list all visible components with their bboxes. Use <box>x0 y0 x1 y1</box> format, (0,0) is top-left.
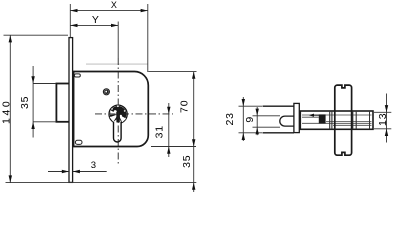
dim 31 line <box>168 103 170 157</box>
faceplate <box>69 38 73 183</box>
centerline horizontal <box>95 113 173 115</box>
dim 70/35 extension top <box>148 71 196 73</box>
dim 9 arrow bottom <box>256 127 259 134</box>
dim 3 line left <box>48 171 69 173</box>
dim 140 arrow top <box>9 35 12 42</box>
dim 23 line <box>242 97 244 141</box>
dim X arrow left <box>70 9 77 12</box>
dim 13 arrow bottom <box>385 129 388 136</box>
svg-text:140: 140 <box>1 99 13 124</box>
dim 23 arrow bottom <box>242 133 245 140</box>
cylinder keyhole circle <box>109 105 127 123</box>
dim 31 arrow top <box>167 107 170 114</box>
dim 70 arrow bottom <box>192 139 195 146</box>
dim 9 arrow top <box>256 109 259 116</box>
washer right <box>352 111 354 129</box>
dim 3 line right <box>73 171 107 173</box>
dim X arrow right <box>141 9 148 12</box>
flange plate <box>294 103 299 132</box>
bolt bar bottom edge <box>263 132 295 134</box>
screw <box>103 89 109 95</box>
dim 9 extension top <box>253 115 281 117</box>
dim 13 arrow top <box>385 105 388 112</box>
cam dark square <box>319 114 326 123</box>
keyway dark pattern <box>110 105 127 122</box>
body inner line 5 <box>333 124 372 126</box>
dim X extension left <box>69 4 71 37</box>
side body <box>300 111 373 129</box>
dim 70 arrow top <box>192 72 195 79</box>
dim 3 arrow left <box>62 170 69 173</box>
dim 35 left arrow top <box>31 76 34 83</box>
bolt bar top edge <box>263 105 295 107</box>
centerline vertical <box>117 58 119 166</box>
svg-text:3: 3 <box>91 160 96 171</box>
dim 140 line <box>9 35 11 182</box>
washer left <box>329 111 331 129</box>
svg-text:9: 9 <box>244 117 256 123</box>
svg-text:23: 23 <box>224 112 236 125</box>
dim X extension right <box>147 4 149 72</box>
svg-text:X: X <box>111 0 117 10</box>
slot hole bottom <box>75 140 82 144</box>
dim Y arrow left <box>70 24 77 27</box>
dim 13 line <box>386 94 388 143</box>
dim 9 extension bottom <box>253 126 281 128</box>
dim 140 arrow bottom <box>9 175 12 182</box>
tall cylinder bar <box>335 85 352 155</box>
body inner line 2 <box>302 116 319 118</box>
deadbolt <box>56 84 70 122</box>
dim Y arrow right <box>111 24 118 27</box>
lock body outline <box>74 72 149 147</box>
body inner line 3 <box>326 121 372 123</box>
dim 9 line <box>256 107 258 135</box>
dim Y line <box>70 24 118 26</box>
dim 31 arrow bottom <box>167 147 170 154</box>
svg-text:13: 13 <box>377 113 389 126</box>
dim 35 left extension top <box>33 83 56 85</box>
slot hole top <box>74 74 80 77</box>
dim 140 extension bottom (continuous to right 35 dim) <box>6 182 197 184</box>
body end cap line <box>369 111 371 129</box>
body inner line 4 <box>302 122 372 124</box>
dim X line <box>70 10 148 12</box>
keyway slot bar <box>116 112 119 122</box>
inner left arrow <box>311 114 319 116</box>
dim 23 arrow top <box>242 99 245 106</box>
cylinder stem <box>114 120 122 143</box>
dim 35 left line <box>32 66 34 138</box>
dim 35 left arrow bottom <box>31 122 34 129</box>
dim 13 extension bottom <box>374 128 391 130</box>
dim 70/35 line <box>193 72 195 192</box>
dim 140 extension top <box>4 34 69 36</box>
dim 35 left extension bottom <box>33 121 56 123</box>
svg-text:35: 35 <box>19 96 31 109</box>
body inner line 1 <box>302 114 372 116</box>
inner bolt rod <box>280 116 295 126</box>
svg-text:31: 31 <box>153 125 165 138</box>
faint inner top line <box>86 63 148 65</box>
dim 3 arrow right <box>73 170 80 173</box>
dim Y extension right <box>117 22 119 59</box>
dim 35 right arrow bottom <box>192 183 195 190</box>
dim 13 extension top <box>374 111 391 113</box>
svg-text:Y: Y <box>92 14 99 26</box>
dim 23 extension top <box>239 105 263 107</box>
dim 23 extension bottom <box>239 132 263 134</box>
svg-text:35: 35 <box>181 155 193 168</box>
svg-text:70: 70 <box>179 100 191 113</box>
dim 70/35 extension middle <box>151 146 196 148</box>
